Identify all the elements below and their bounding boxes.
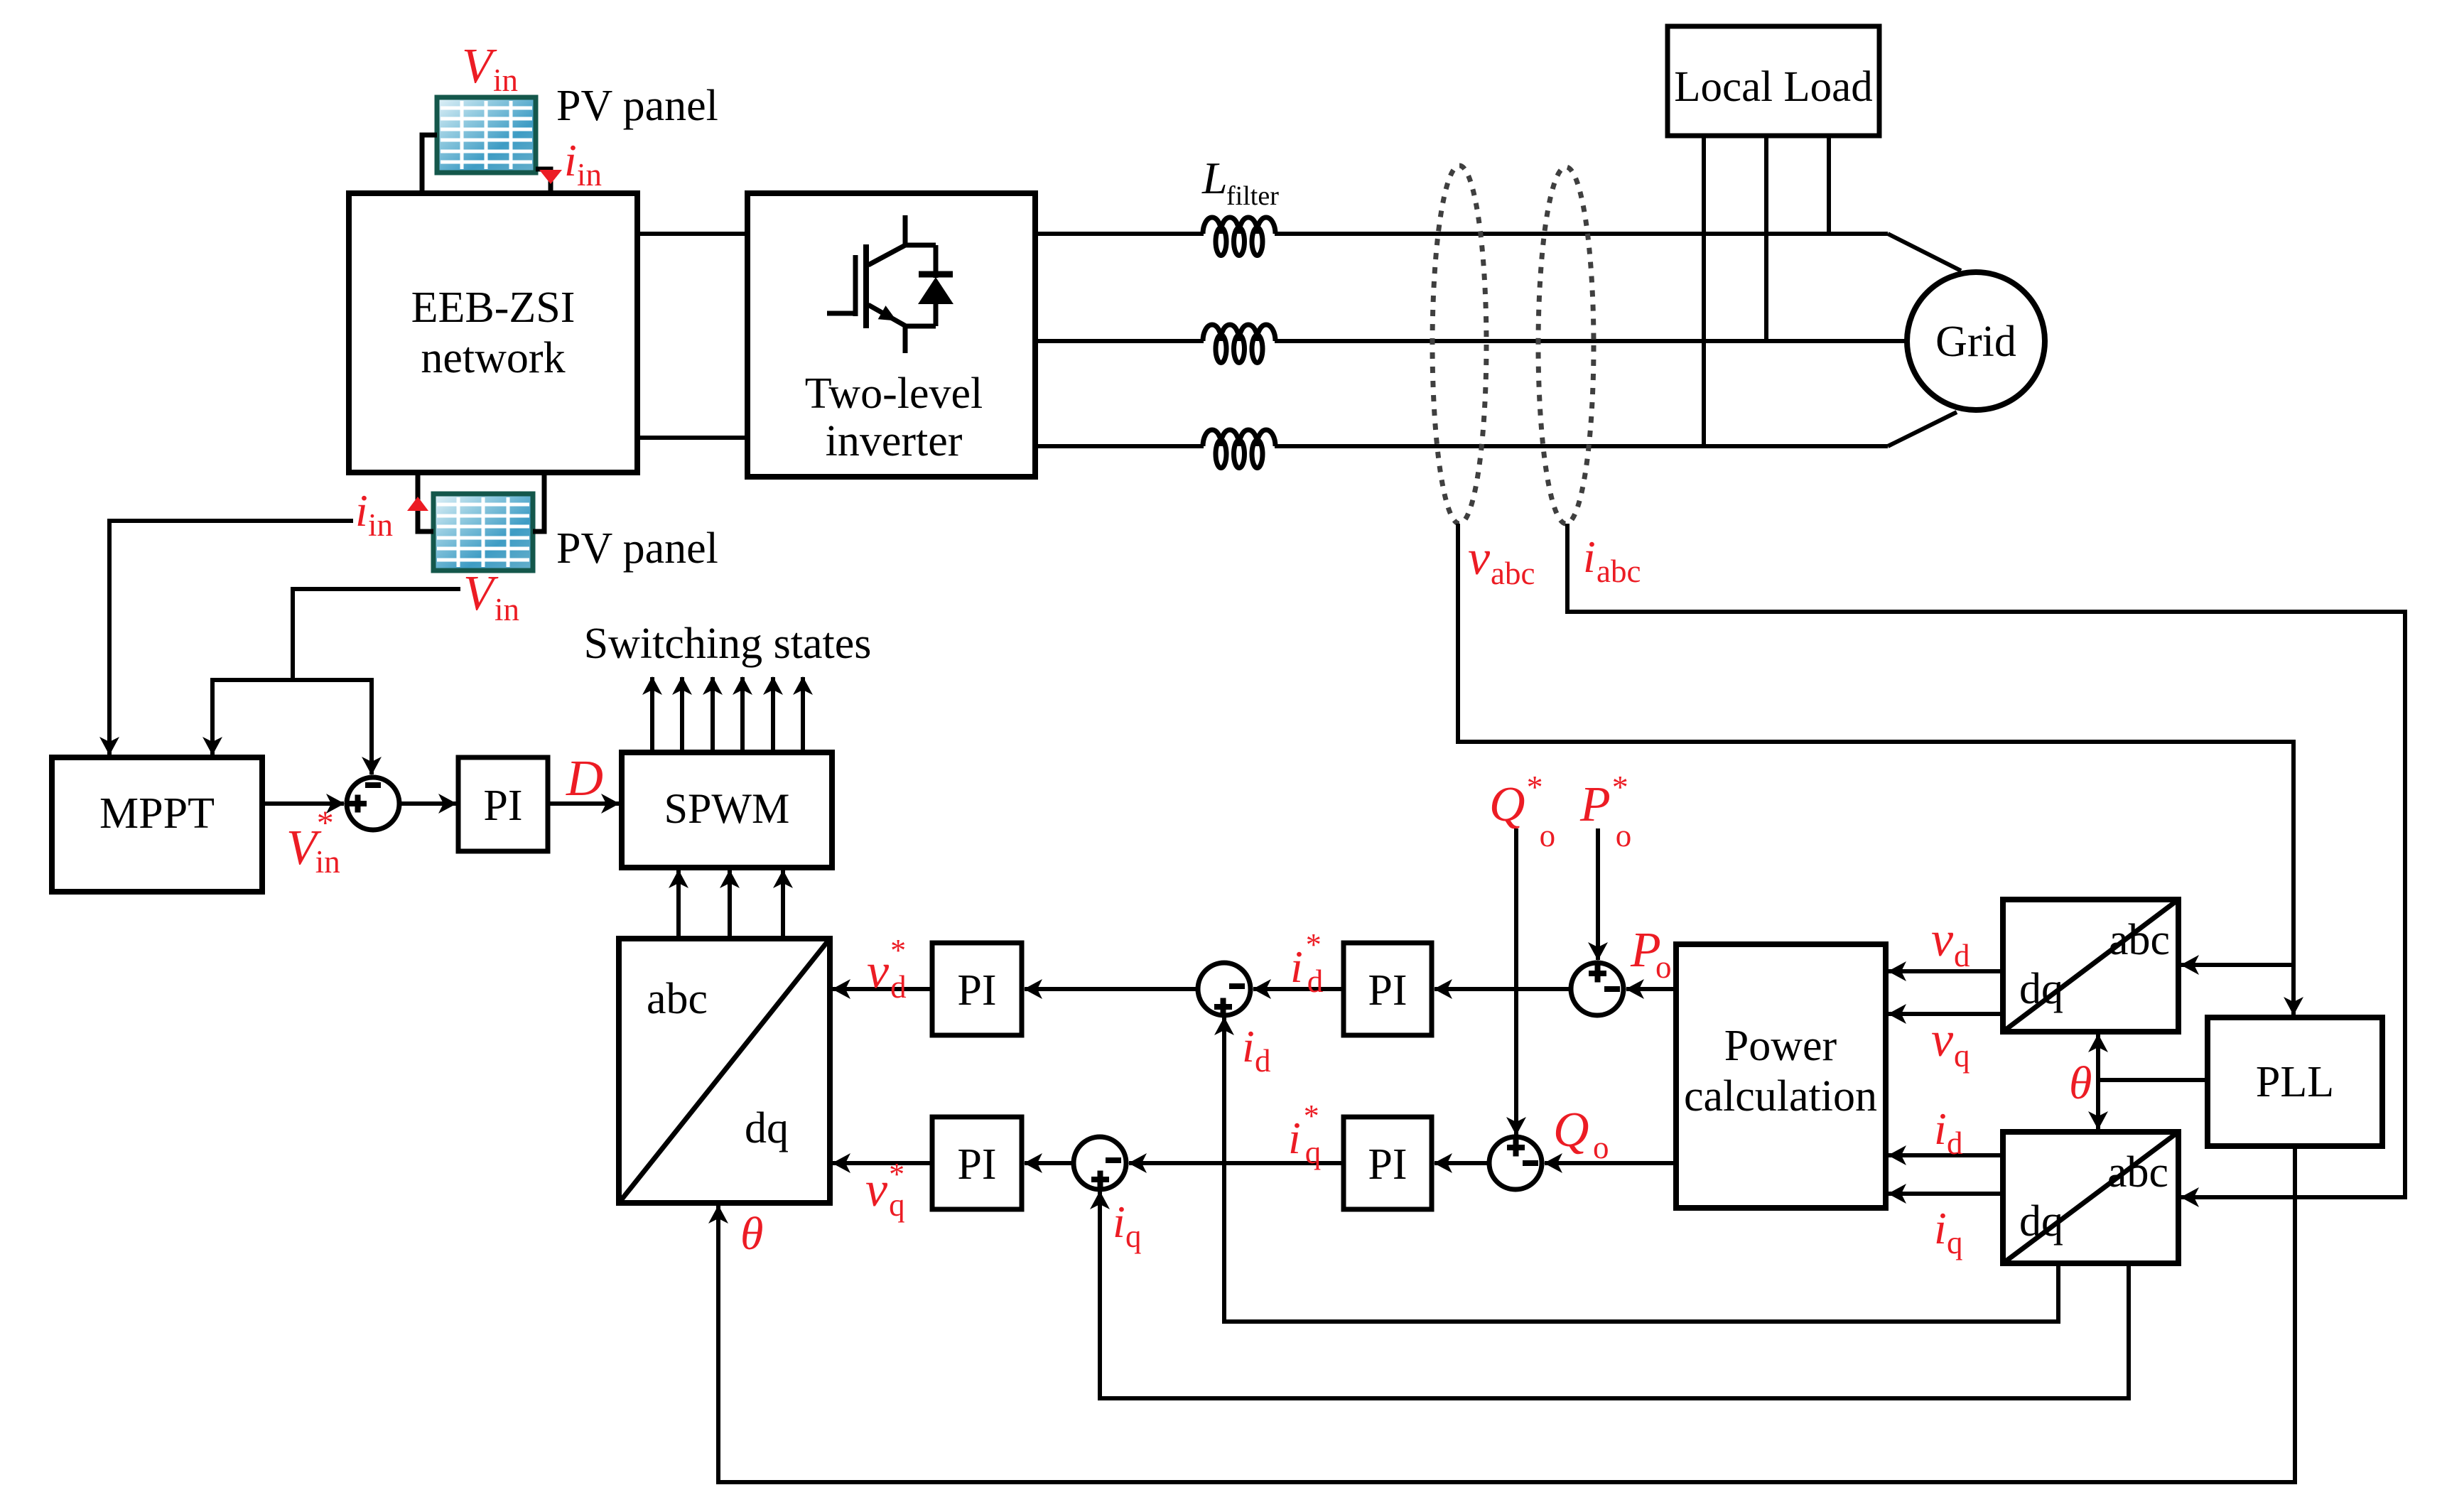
wire local load leg 2 (to phase b) xyxy=(1764,136,1768,341)
wire summing junction to PI xyxy=(399,801,456,806)
current arrow iin (top, red) xyxy=(539,170,562,184)
measurement ellipse vabc (dashed) xyxy=(1432,166,1486,524)
IGBT symbol inside inverter xyxy=(827,215,953,353)
wire theta double arrow xyxy=(2096,1035,2100,1129)
svg-text:i: i xyxy=(1113,1197,1125,1247)
svg-text:L: L xyxy=(1201,153,1228,203)
svg-text:abc: abc xyxy=(2109,916,2170,964)
wire Qo* to Q junction xyxy=(1514,828,1518,1135)
Two-level inverter box xyxy=(747,193,1035,477)
wire iq into power calc xyxy=(1889,1192,2003,1196)
svg-text:MPPT: MPPT xyxy=(99,789,215,838)
svg-text:dq: dq xyxy=(2019,965,2063,1013)
summing junction (Vin) xyxy=(347,777,399,830)
svg-text:filter: filter xyxy=(1226,181,1279,211)
wire vabc branch to abc-dq xyxy=(2181,963,2294,967)
PI box (voltage loop) xyxy=(458,757,548,851)
wire P junction to PI id xyxy=(1435,987,1571,991)
wire iabc sense line xyxy=(1567,524,2405,1197)
wire local load leg 1 (to phase c) xyxy=(1702,136,1706,446)
wire theta feedback into abc-dq xyxy=(718,1146,2295,1482)
svg-text:abc: abc xyxy=(2107,1148,2168,1197)
arrows abc-dq to SPWM (3) xyxy=(676,870,681,939)
wire PI iq to junction xyxy=(1129,1161,1344,1165)
svg-text:PV panel: PV panel xyxy=(556,524,718,573)
phase line b (middle) xyxy=(1035,339,1204,343)
inductor Lfilter phase c xyxy=(1203,430,1275,468)
wire vq into power calc xyxy=(1889,1012,2003,1016)
svg-text:PI: PI xyxy=(1368,966,1407,1015)
SPWM box xyxy=(622,752,832,868)
wire vd into power calc xyxy=(1889,969,2003,973)
svg-text:PV panel: PV panel xyxy=(556,82,718,130)
svg-text:o: o xyxy=(1593,1130,1609,1165)
svg-text:in: in xyxy=(577,157,602,193)
phase line c (bottom) xyxy=(1035,444,1204,448)
wire power calc to Q junction xyxy=(1545,1161,1676,1165)
svg-text:EEB-ZSI: EEB-ZSI xyxy=(411,283,576,332)
svg-text:Two-level: Two-level xyxy=(805,369,983,418)
wire MPPT to summing junction xyxy=(262,801,344,806)
Local Load box xyxy=(1668,26,1879,136)
svg-text:in: in xyxy=(495,592,519,627)
svg-text:PLL: PLL xyxy=(2256,1058,2334,1106)
Grid circle xyxy=(1907,272,2045,410)
svg-text:PI: PI xyxy=(1368,1140,1407,1189)
wire PV top left lead xyxy=(422,135,437,193)
wire EEB to inverter (lower DC bus) xyxy=(637,436,747,440)
inductor Lfilter phase a xyxy=(1203,217,1275,256)
svg-text:calculation: calculation xyxy=(1684,1072,1877,1120)
svg-text:q: q xyxy=(1947,1225,1963,1260)
measurement ellipse iabc (dashed) xyxy=(1538,167,1594,524)
wire id junction to PI vd xyxy=(1025,987,1197,991)
PI box (vq loop) xyxy=(932,1117,1022,1209)
wire Vin to summing junction xyxy=(369,678,374,774)
svg-text:o: o xyxy=(1655,949,1672,985)
svg-text:in: in xyxy=(493,63,518,98)
wire iin to MPPT xyxy=(109,521,353,755)
svg-text:v: v xyxy=(1931,1012,1954,1067)
svg-text:SPWM: SPWM xyxy=(664,785,790,832)
PV panel (bottom) xyxy=(433,494,533,571)
MPPT box xyxy=(52,757,262,892)
svg-text:v*d: v*d xyxy=(867,933,907,1005)
wire iq feedback xyxy=(1100,1192,2129,1398)
svg-text:Q: Q xyxy=(1553,1103,1589,1157)
svg-text:dq: dq xyxy=(2019,1197,2063,1246)
wire EEB to inverter (upper DC bus) xyxy=(637,232,747,236)
svg-text:abc: abc xyxy=(647,975,708,1023)
wire PV top right lead xyxy=(536,169,551,193)
svg-text:V: V xyxy=(462,39,497,94)
svg-text:q: q xyxy=(1954,1038,1970,1074)
svg-text:Power: Power xyxy=(1724,1022,1837,1070)
svg-text:v*q: v*q xyxy=(865,1157,905,1223)
svg-text:d: d xyxy=(1947,1125,1963,1161)
PV panel (top) xyxy=(437,97,536,173)
svg-text:abc: abc xyxy=(1491,556,1535,591)
svg-text:d: d xyxy=(1255,1043,1271,1079)
summing junction (Q) xyxy=(1489,1137,1542,1189)
wire vabc sense line xyxy=(1458,524,2294,1015)
wire phase c diagonal to grid xyxy=(1888,412,1957,446)
wire Po* to P junction xyxy=(1596,828,1600,960)
svg-text:Local Load: Local Load xyxy=(1674,63,1872,111)
summing junction (P) xyxy=(1571,963,1624,1015)
svg-text:d: d xyxy=(1954,938,1970,973)
PI box (iq loop) xyxy=(1344,1117,1432,1209)
phase line a (top) xyxy=(1035,232,1204,236)
svg-text:abc: abc xyxy=(1597,553,1641,589)
abc-dq transform box (modulation) xyxy=(619,939,830,1203)
wire vq* PI to abc-dq xyxy=(833,1161,932,1165)
wire Q junction to PI iq xyxy=(1435,1161,1489,1165)
abc-dq transform box (voltage) xyxy=(2003,900,2178,1032)
summing junction (id) xyxy=(1198,963,1250,1015)
svg-text:q: q xyxy=(1125,1219,1142,1254)
svg-text:i: i xyxy=(1934,1103,1947,1154)
wire local load leg 3 (to phase a) xyxy=(1827,136,1831,234)
current arrow iin (bottom, red) xyxy=(407,497,428,511)
svg-text:D: D xyxy=(566,750,603,806)
svg-text:i: i xyxy=(355,485,368,536)
wire power calc to P junction xyxy=(1626,987,1676,991)
svg-text:PI: PI xyxy=(957,1140,996,1189)
svg-text:inverter: inverter xyxy=(826,417,963,465)
wire PV bottom right lead xyxy=(533,472,544,531)
summing junction (iq) xyxy=(1074,1137,1126,1189)
svg-text:PI: PI xyxy=(957,966,996,1015)
svg-text:network: network xyxy=(421,334,565,382)
Power calculation box xyxy=(1676,944,1886,1208)
svg-text:i: i xyxy=(1934,1203,1947,1253)
inductor Lfilter phase b xyxy=(1203,325,1275,363)
svg-text:in: in xyxy=(368,507,393,543)
PI box (id loop) xyxy=(1344,943,1432,1035)
wire phase a diagonal to grid xyxy=(1888,234,1961,271)
wire id into power calc xyxy=(1889,1153,2003,1157)
svg-text:PI: PI xyxy=(483,782,522,830)
wire id feedback xyxy=(1224,1017,2058,1322)
wire vd* PI to abc-dq xyxy=(833,987,932,991)
EEB-ZSI network box xyxy=(349,193,637,472)
svg-text:i: i xyxy=(1583,531,1596,582)
abc-dq transform box (current) xyxy=(2003,1132,2178,1263)
svg-text:v: v xyxy=(1468,531,1491,585)
svg-text:Grid: Grid xyxy=(1935,318,2016,366)
wire iq junction to PI vq xyxy=(1025,1161,1073,1165)
switching state arrows (6) xyxy=(650,677,654,752)
svg-text:θ: θ xyxy=(2069,1057,2092,1109)
svg-text:Switching states: Switching states xyxy=(584,620,872,668)
wire PI id to junction xyxy=(1253,987,1344,991)
svg-text:i: i xyxy=(1242,1021,1255,1071)
svg-text:i: i xyxy=(564,135,577,185)
svg-text:v: v xyxy=(1931,912,1954,967)
wire PLL theta output xyxy=(2098,1078,2208,1082)
wire PV bottom left lead xyxy=(418,472,433,531)
wire Vin to MPPT xyxy=(210,678,215,755)
PLL box xyxy=(2208,1017,2382,1146)
PI box (vd loop) xyxy=(932,943,1022,1035)
wire PI to SPWM xyxy=(548,801,619,806)
svg-text:dq: dq xyxy=(745,1104,789,1152)
wire Vin distribution xyxy=(293,589,460,680)
svg-text:V: V xyxy=(463,566,499,621)
svg-text:θ: θ xyxy=(740,1208,763,1260)
